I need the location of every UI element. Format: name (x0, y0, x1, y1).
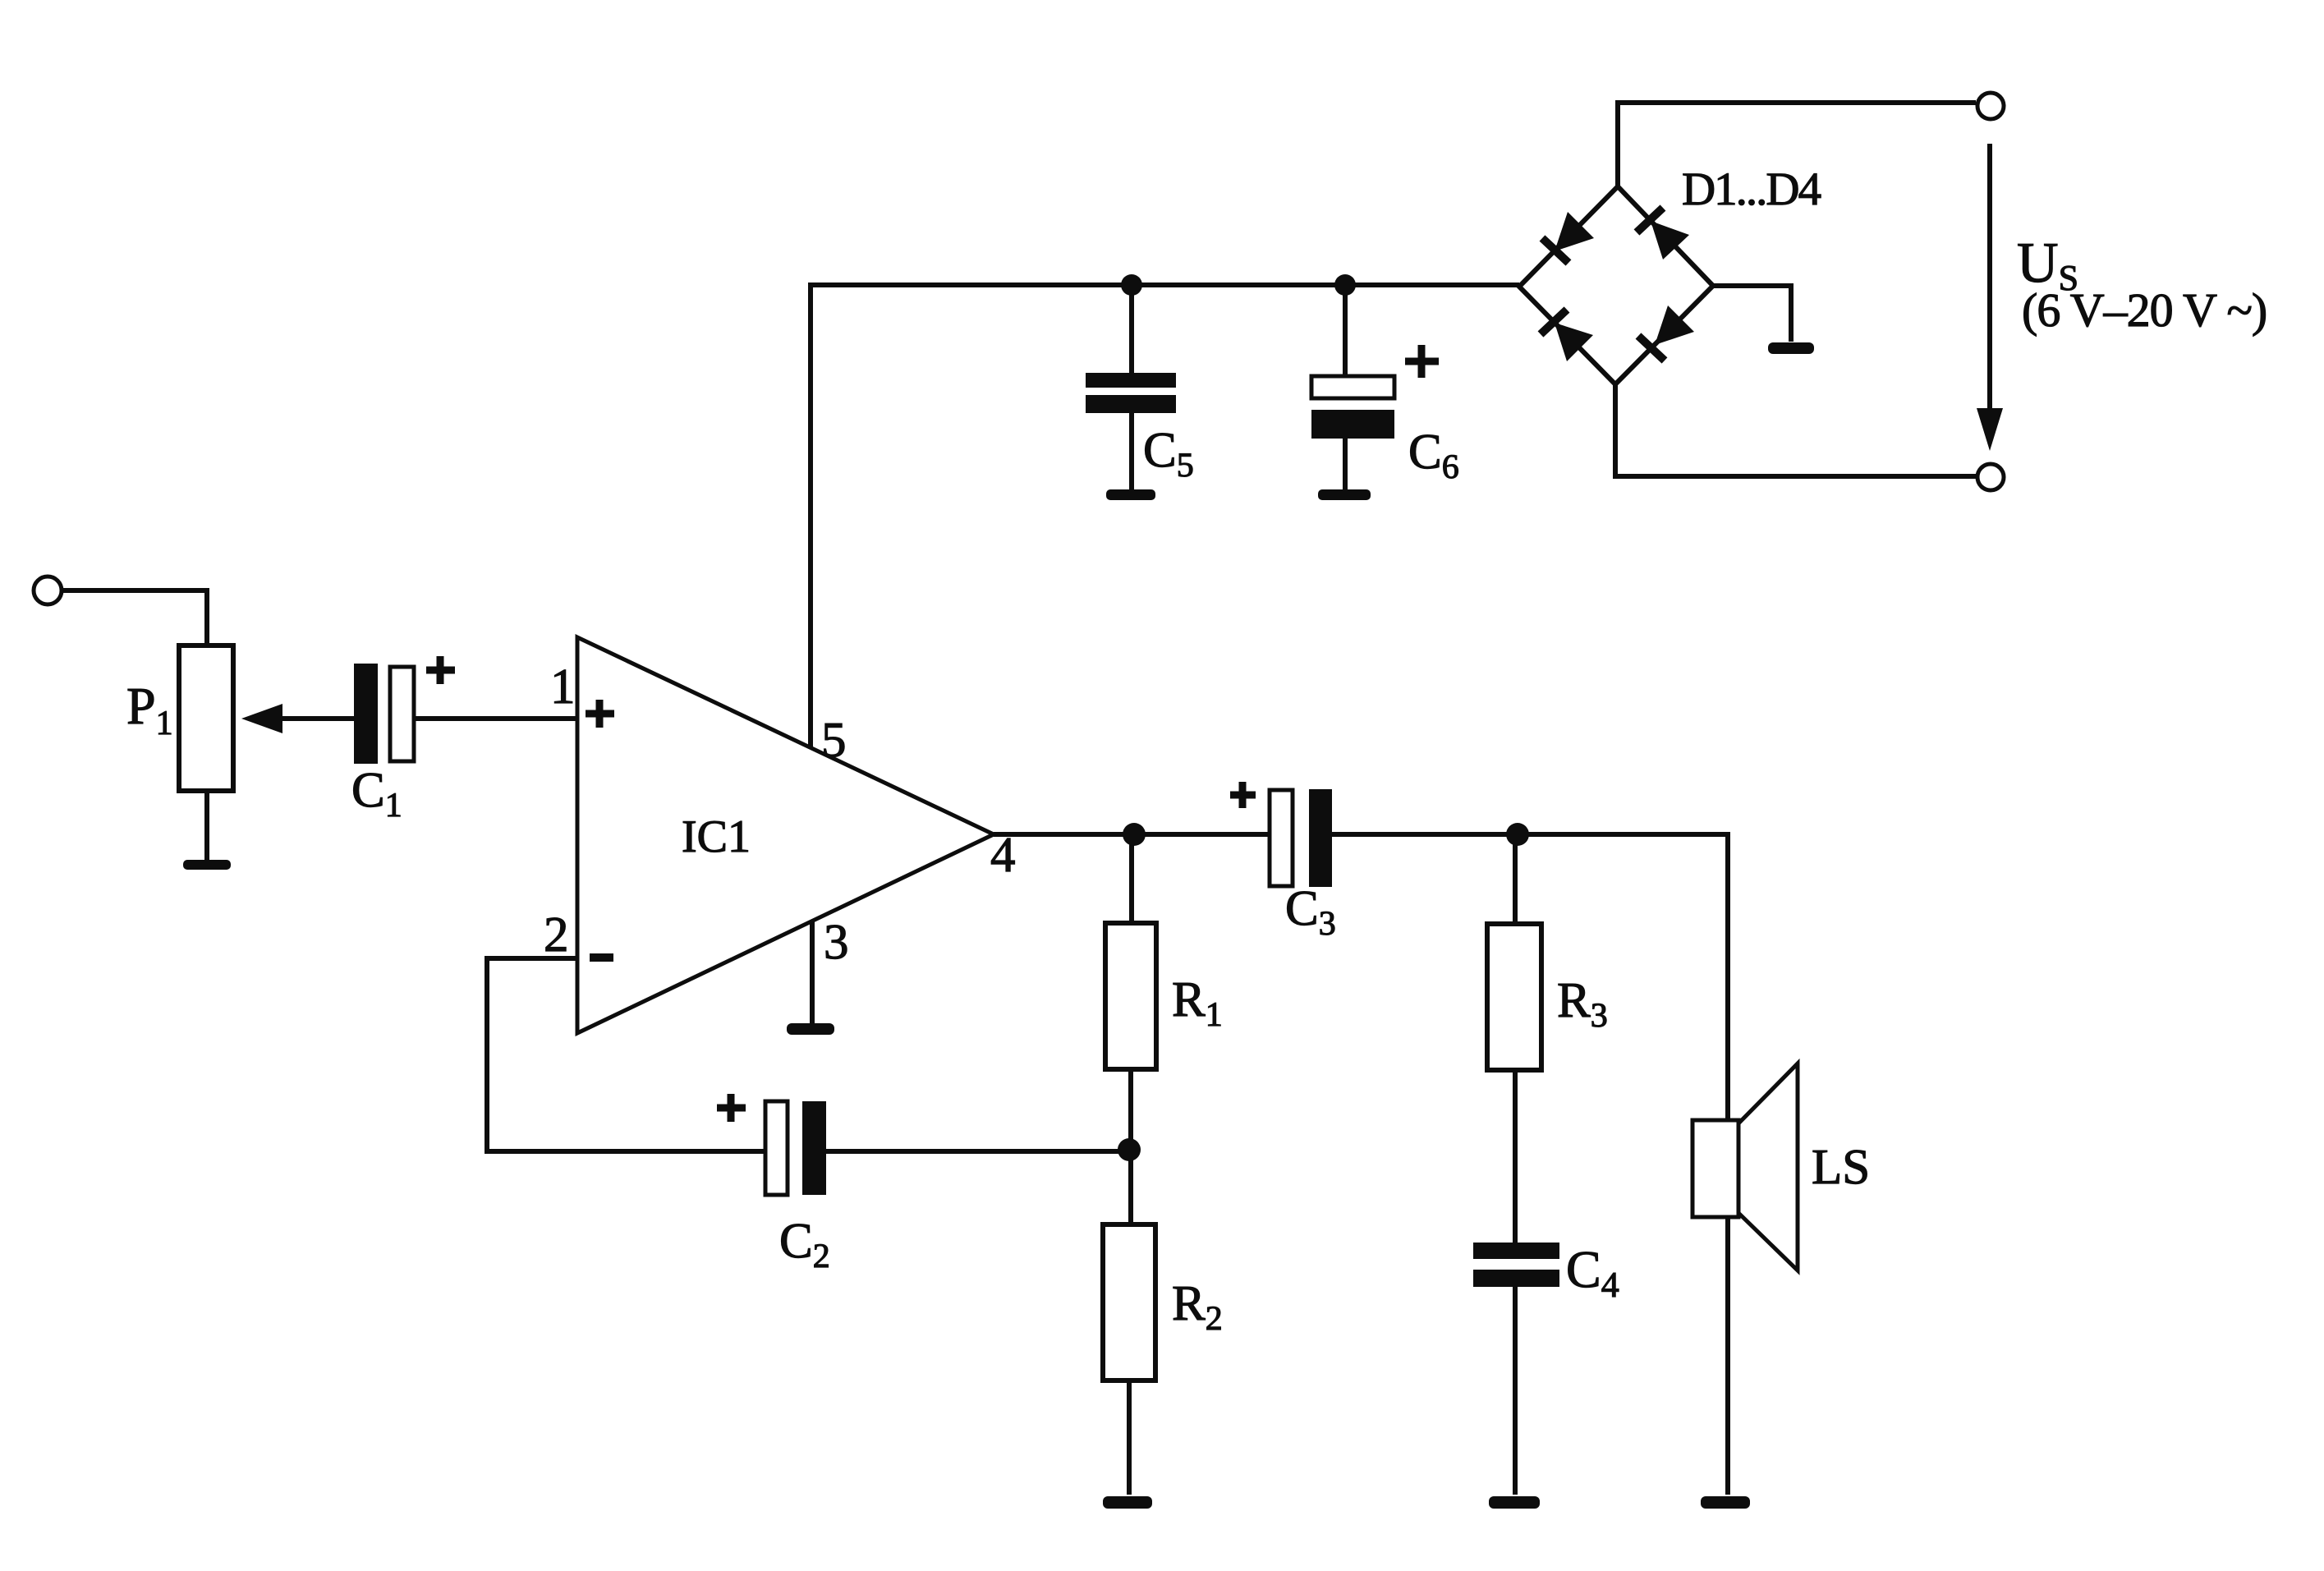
svg-text:(6 V–20 V ~): (6 V–20 V ~) (2022, 283, 2267, 337)
svg-text:5: 5 (821, 713, 847, 768)
svg-text:3: 3 (824, 915, 849, 970)
svg-text:LS: LS (1812, 1140, 1870, 1195)
svg-text:IC1: IC1 (682, 811, 751, 862)
svg-text:1: 1 (550, 659, 576, 714)
svg-text:D1...D4: D1...D4 (1682, 163, 1821, 215)
svg-text:2: 2 (544, 907, 569, 962)
svg-text:4: 4 (990, 828, 1016, 883)
